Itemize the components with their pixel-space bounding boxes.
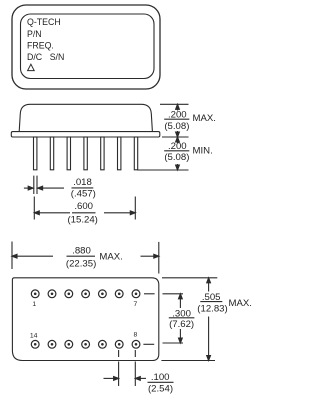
pin circle 12 — [65, 340, 73, 348]
svg-text:8: 8 — [134, 332, 138, 339]
dim .600 line right with arrow — [104, 211, 135, 215]
fraction bar .300 — [169, 317, 195, 319]
dim .600 line left with arrow — [34, 211, 70, 215]
side view pin 3 — [67, 137, 70, 170]
pin circle 3 — [65, 290, 73, 298]
svg-text:(22.35): (22.35) — [66, 259, 96, 270]
pin circle 5 — [99, 290, 107, 298]
dim .200 MIN arrow up — [176, 137, 180, 143]
svg-text:14: 14 — [30, 332, 38, 339]
dim .200 MIN arrow down — [176, 164, 180, 170]
dim .505 extension line bottom — [161, 360, 215, 362]
svg-text:(7.62): (7.62) — [169, 319, 194, 330]
pin circle 9 — [115, 340, 123, 348]
side view pin 1 — [34, 137, 37, 170]
dim .300 extension line bottom — [163, 342, 184, 344]
pin circle 7 — [132, 290, 140, 298]
pin circle 4 — [82, 290, 90, 298]
pin circle 11 — [82, 340, 90, 348]
dim .018 arrow right — [38, 186, 64, 190]
dim .600 extension line left — [33, 197, 35, 220]
pin circle 2 — [48, 290, 56, 298]
triangle index mark — [28, 64, 35, 70]
package top label view: outer case outline — [12, 5, 160, 89]
pin circle 14 — [31, 340, 39, 348]
fraction bar MIN — [164, 150, 189, 152]
svg-text:MAX.: MAX. — [193, 113, 216, 124]
fraction bar .505 — [200, 301, 222, 303]
side view pin 6 — [118, 137, 121, 170]
side view pin 4 — [84, 137, 87, 170]
dim .100 arrow right — [135, 377, 146, 381]
dim .018 extension line left (pin side) — [33, 176, 35, 194]
dim .880 extension line right — [158, 242, 160, 274]
fraction bar MAX — [164, 118, 189, 120]
svg-text:FREQ.: FREQ. — [27, 40, 54, 50]
side view: case body — [19, 104, 152, 131]
dim .200 shared extension line (flange bottom) — [162, 136, 189, 138]
side view: base flange — [11, 132, 160, 137]
dim .018 extension line right (pin side) — [36, 176, 38, 194]
svg-text:(5.08): (5.08) — [164, 152, 189, 163]
dim .100 arrow left — [104, 377, 119, 381]
dim .300 extension line top — [163, 293, 184, 295]
dim .600 fraction bar — [72, 212, 96, 214]
pin circle 6 — [115, 290, 123, 298]
dim .200 MAX arrow up — [176, 104, 180, 110]
dim .200 MAX arrow down — [176, 131, 180, 137]
svg-text:S/N: S/N — [50, 52, 65, 62]
svg-text:(5.08): (5.08) — [164, 121, 189, 132]
dim .300 arrow up — [179, 294, 183, 308]
side view pin 5 — [101, 137, 104, 170]
dim .505 arrow down — [207, 317, 211, 361]
svg-text:MIN.: MIN. — [193, 146, 213, 157]
dim .505 extension line top — [162, 277, 217, 279]
svg-text:(.457): (.457) — [71, 189, 96, 200]
leader dash pin 8 — [143, 343, 154, 345]
dim .200 MIN extension line (pin end) — [137, 169, 189, 171]
svg-text:(15.24): (15.24) — [67, 215, 97, 226]
svg-text:1: 1 — [32, 301, 36, 308]
dim .880 fraction bar — [67, 255, 96, 257]
dim .600 extension line right — [134, 197, 136, 220]
pin circle 1 — [31, 290, 39, 298]
svg-text:P/N: P/N — [27, 29, 42, 39]
dim .880 line left with arrow — [12, 254, 53, 258]
svg-text:.018: .018 — [73, 177, 92, 188]
dim .880 extension line left — [11, 242, 13, 270]
dim .200 MAX extension line (case top) — [160, 103, 189, 105]
dim .300 arrow down — [179, 329, 183, 343]
dim .100 extension line left (below pin 9) — [118, 350, 120, 386]
side view pin 2 — [50, 137, 53, 170]
dim .880 line right with arrow — [141, 254, 159, 258]
side view pin 7 — [134, 137, 137, 170]
svg-text:MAX.: MAX. — [229, 298, 252, 309]
svg-text:(2.54): (2.54) — [148, 384, 173, 395]
leader dash pin 7 — [144, 293, 155, 295]
bottom view: package outline — [12, 278, 158, 361]
svg-text:D/C: D/C — [27, 52, 43, 62]
pin circle 8 — [132, 340, 140, 348]
svg-text:7: 7 — [134, 301, 138, 308]
svg-text:.100: .100 — [151, 372, 170, 383]
fraction bar .100 — [148, 381, 174, 383]
dim .018 arrow left — [24, 186, 33, 190]
dim .505 arrow up — [207, 278, 211, 292]
svg-text:.600: .600 — [74, 201, 93, 212]
pin circle 13 — [48, 340, 56, 348]
pin circle 10 — [99, 340, 107, 348]
svg-text:.880: .880 — [72, 246, 91, 257]
svg-text:(12.83): (12.83) — [197, 303, 227, 314]
label area inner outline — [21, 14, 155, 79]
dim .100 extension line right (below pin 8) — [134, 350, 136, 386]
svg-text:MAX.: MAX. — [99, 252, 122, 263]
fraction bar .018 — [72, 187, 94, 189]
svg-text:Q-TECH: Q-TECH — [27, 17, 61, 27]
